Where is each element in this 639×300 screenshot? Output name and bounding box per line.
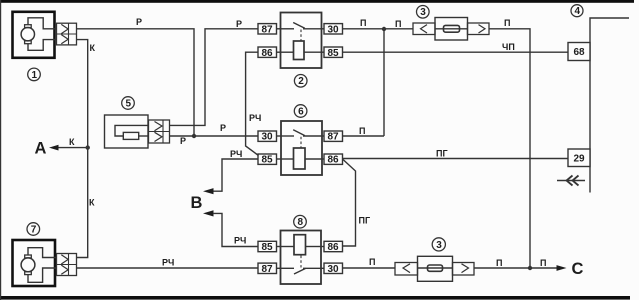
relay6 switch — [281, 135, 294, 137]
svg-text:5: 5 — [126, 98, 132, 109]
arrow A head — [49, 145, 59, 151]
svg-text:П: П — [540, 258, 546, 268]
fuse3 bottom element — [418, 267, 453, 269]
fuse3 bottom right connector — [453, 263, 475, 276]
svg-text:87: 87 — [262, 264, 274, 275]
relay8 switch (bottom) — [281, 267, 295, 269]
svg-text:86: 86 — [262, 48, 274, 59]
svg-text:87: 87 — [328, 132, 340, 143]
svg-text:3: 3 — [436, 240, 442, 251]
wire P(net): relay2 pin30 to fuse3 top — [343, 28, 414, 30]
relay2 coil — [294, 41, 305, 60]
svg-text:2: 2 — [298, 76, 304, 87]
motor M7 armature circle — [21, 258, 35, 272]
svg-text:30: 30 — [328, 264, 340, 275]
comp5 internal wiring — [115, 125, 149, 136]
wire: junction down to relay6 pin87 — [383, 29, 385, 136]
svg-text:П: П — [359, 126, 365, 136]
relay K2 (component 2) main box — [281, 13, 322, 69]
wire P: comp5 bottom pin to relay6 pin30 — [170, 135, 259, 137]
fuse F (component 3 top) left connector — [413, 23, 435, 35]
label 1 circled — [28, 68, 41, 81]
wire to arrow A — [58, 147, 88, 149]
motor M7 internal wire bottom — [28, 268, 57, 282]
label 2 circled — [294, 75, 307, 88]
svg-text:П: П — [496, 258, 502, 268]
relay2 pin stubs — [277, 28, 281, 30]
connector of motor 7 — [57, 254, 77, 276]
relay2 switch — [281, 28, 295, 30]
svg-text:П: П — [369, 257, 375, 267]
label 4 circled — [571, 5, 583, 17]
label 3 circled (bottom) — [432, 238, 445, 251]
svg-text:ЧП: ЧП — [502, 42, 515, 52]
wire RCH: relay2 pin86 down to relay6 pin85 — [246, 52, 259, 155]
node junction dot (382,28.8) — [382, 27, 386, 31]
wire P: fuse3 to down corner x530 — [489, 29, 530, 268]
relay6 pin box 30 — [258, 131, 277, 141]
svg-text:Р: Р — [180, 136, 186, 146]
svg-text:К: К — [89, 198, 95, 208]
top border bar — [0, 0, 634, 3]
svg-text:85: 85 — [328, 48, 340, 59]
component 4 block line — [590, 18, 629, 193]
connector of comp5 — [149, 120, 170, 143]
wire P: relay8 pin30 to fuse3 bottom — [343, 267, 396, 269]
motor M1 brush tab bottom — [25, 41, 32, 44]
svg-text:86: 86 — [328, 155, 340, 166]
svg-text:А: А — [35, 140, 47, 158]
relay2 pin box 30 — [324, 24, 343, 34]
svg-text:3: 3 — [420, 7, 426, 18]
relay8 coil (top) — [294, 235, 306, 255]
fuse3 bottom body — [418, 256, 453, 281]
svg-text:К: К — [90, 43, 96, 53]
svg-text:Р: Р — [136, 17, 142, 27]
svg-text:85: 85 — [262, 242, 274, 253]
svg-text:С: С — [572, 260, 584, 278]
relay K8 (component 8) main box — [281, 231, 322, 285]
svg-text:РЧ: РЧ — [162, 258, 174, 268]
fuse3 top body — [435, 18, 468, 41]
svg-text:68: 68 — [574, 47, 586, 58]
motor M7 internal wire top — [28, 248, 57, 258]
label 5 circled — [122, 97, 135, 110]
wire RCh: arrow B bottom to relay8 pin85 — [213, 213, 258, 246]
motor M1 armature circle — [21, 28, 34, 41]
wire K: motor1 bottom pin down to motor7 top pin — [77, 40, 88, 258]
svg-text:4: 4 — [575, 6, 581, 17]
label 6 circled — [294, 105, 307, 118]
relay6 pin box 85 — [258, 154, 277, 164]
node junction dot (530,268) — [528, 266, 532, 270]
label 8 circled — [294, 215, 307, 228]
svg-text:7: 7 — [31, 224, 37, 235]
arrow marker below 29 — [557, 180, 585, 182]
relay6 coil — [294, 148, 306, 169]
label 3 circled (top) — [417, 6, 430, 19]
svg-text:РЧ: РЧ — [234, 236, 246, 246]
relay8 pin box 85 — [258, 241, 277, 251]
svg-text:П: П — [360, 18, 366, 28]
motor M7 brush tab bottom — [25, 272, 32, 275]
svg-text:В: В — [191, 194, 203, 212]
svg-text:ПГ: ПГ — [359, 216, 371, 226]
relay8 pin box 87 — [258, 263, 277, 273]
svg-text:Р: Р — [236, 19, 242, 29]
relay2 pin box 85 — [324, 47, 343, 57]
svg-text:РЧ: РЧ — [230, 149, 242, 159]
motor M7 (component 7) outer box — [13, 240, 56, 286]
wire P: fuse3 bottom to arrow C — [474, 267, 558, 269]
fuse F (component 3 bottom) left connector — [395, 263, 418, 276]
motor M1 internal wire bottom — [28, 40, 57, 51]
svg-text:П: П — [504, 18, 510, 28]
relay8 pin box 86 — [324, 241, 343, 251]
relay2 pin box 87 — [258, 24, 277, 34]
svg-text:29: 29 — [574, 153, 586, 164]
motor M1 (component 1) outer box — [13, 12, 55, 58]
wire P: motor1 to elbow x194 — [77, 29, 195, 136]
wire RCh: motor7 to relay8 pin87 — [77, 267, 259, 269]
relay6 pin box 87 — [324, 131, 343, 141]
connector X1 of motor 1 — [57, 23, 77, 45]
arrow B bottom head — [203, 210, 214, 216]
svg-text:6: 6 — [298, 106, 304, 117]
motor M1 internal wire top — [28, 18, 57, 29]
comp5 resistor element — [123, 132, 138, 139]
motor M1 brush tab top — [25, 25, 32, 28]
svg-text:87: 87 — [262, 25, 274, 36]
pin box 29 — [568, 149, 590, 167]
wire PG: relay6 pin86 down to relay8 pin86 — [343, 160, 356, 247]
svg-text:30: 30 — [262, 132, 274, 143]
motor M7 brush tab top — [25, 255, 32, 258]
svg-text:30: 30 — [328, 25, 340, 36]
svg-text:П: П — [395, 19, 401, 29]
fuse3 top right connector — [468, 23, 490, 35]
node junction dot K branch (87.7,147.6) — [86, 145, 90, 149]
wire PG: relay6 pin86 to pin29 — [343, 158, 569, 160]
relay8 pin box 30 — [324, 263, 343, 273]
svg-text:85: 85 — [262, 155, 274, 166]
left border line — [0, 0, 2, 300]
component 5 box — [105, 115, 149, 148]
wire RCh: relay6 pin85 to arrow B top — [213, 159, 258, 191]
node junction dot on P wire at (194,135.5) — [192, 134, 196, 138]
arrow C head — [557, 265, 567, 271]
relay6 pin box 86 — [324, 154, 343, 164]
svg-text:ПГ: ПГ — [436, 149, 448, 159]
bottom border bar — [0, 296, 630, 300]
svg-text:86: 86 — [328, 242, 340, 253]
svg-text:РЧ: РЧ — [249, 113, 261, 123]
relay6 pin stubs — [277, 135, 282, 137]
wire ChP: relay2 pin85 to pin68 — [343, 51, 569, 53]
pin box 68 — [568, 43, 590, 61]
wire P: elbow (205,28.8) to relay2 pin 87, down to comp5 top pin — [170, 29, 259, 126]
relay8 pin stubs — [277, 246, 281, 248]
svg-text:1: 1 — [32, 70, 38, 81]
fuse3 top element — [435, 28, 468, 30]
svg-text:К: К — [69, 137, 75, 147]
label 7 circled — [27, 223, 40, 236]
svg-text:8: 8 — [298, 217, 304, 228]
arrow B top head — [203, 188, 214, 194]
relay2 pin box 86 — [258, 47, 277, 57]
svg-text:Р: Р — [220, 123, 226, 133]
relay K6 (component 6) main box — [281, 121, 322, 175]
